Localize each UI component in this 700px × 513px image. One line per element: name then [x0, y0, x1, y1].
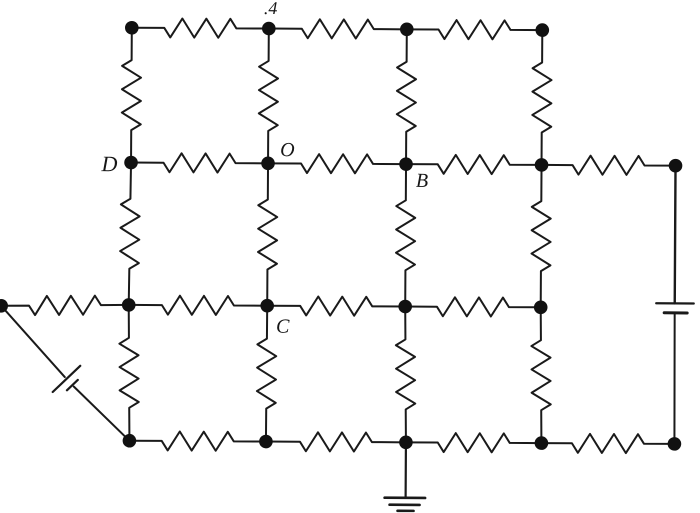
- resistor R7 (row2, col4 to right column): [541, 155, 675, 175]
- wire from left vertex node to battery V1: [1, 306, 65, 377]
- svg-text:O: O: [280, 139, 295, 161]
- resistor R25 (col4, row1 to row2): [532, 30, 552, 165]
- ground symbol line 2: [390, 503, 420, 506]
- node B junction: [399, 157, 413, 171]
- node junction row4-col1: [123, 434, 137, 448]
- resistor R10 (row3, C to col3): [267, 296, 405, 316]
- node junction row4-col3 (ground node): [399, 435, 413, 449]
- node junction row4-right (battery V2 bottom): [668, 437, 682, 451]
- ground symbol line 3: [398, 509, 414, 512]
- resistor R23 (col3, B to row3): [396, 164, 416, 307]
- node junction row2-col4: [535, 158, 549, 172]
- svg-text:.4: .4: [264, 0, 278, 18]
- resistor R1 (row1, top-left to node A): [132, 18, 269, 38]
- node D junction: [124, 156, 138, 170]
- wire from bottom col3 node down to ground: [405, 442, 408, 497]
- node junction row3-col3: [398, 300, 412, 314]
- battery V1 long plate (positive): [53, 366, 81, 392]
- node A junction: [262, 22, 276, 36]
- resistor R6 (row2, B to col4): [406, 155, 542, 175]
- resistor R3 (row1, col3 to col4): [407, 20, 543, 40]
- resistor R20 (col2, O to C): [258, 163, 278, 306]
- wire from battery V1 to bottom-left node: [73, 387, 129, 441]
- resistor R8 (row3, left vertex to col1): [1, 295, 129, 316]
- resistor R9 (row3, col1 to C): [129, 295, 268, 315]
- resistor R4 (row2, D to O): [131, 153, 268, 173]
- resistor R14 (row4, col3 to col4): [406, 433, 542, 453]
- wire from right row2 node down to battery V2: [674, 166, 677, 304]
- node junction row4-col4: [535, 436, 549, 450]
- node junction row3-col1: [122, 298, 136, 312]
- node junction row1-col3: [400, 22, 414, 36]
- resistor R24 (col3, row3 to row4): [395, 306, 415, 442]
- wire from battery V2 down to bottom-right node: [674, 313, 675, 444]
- node junction row2-right (battery V2 top): [669, 159, 683, 173]
- ground symbol line 1: [385, 496, 425, 499]
- svg-text:B: B: [416, 170, 428, 192]
- node junction row3-col4: [534, 300, 548, 314]
- resistor R15 (row4, col4 to right column): [541, 434, 674, 454]
- battery V1 short plate (negative): [67, 380, 78, 390]
- resistor R19 (col2, A to O): [259, 28, 279, 163]
- svg-text:D: D: [100, 151, 117, 176]
- battery V2 long plate (positive): [656, 302, 693, 305]
- resistor R27 (col4, row3 to row4): [531, 307, 551, 443]
- resistor R18 (col1, row3 to row4): [119, 305, 139, 441]
- resistor R21 (col2, C to row4): [257, 306, 277, 442]
- resistor R12 (row4, col1 to col2): [129, 431, 266, 451]
- svg-text:C: C: [276, 316, 290, 338]
- resistor R16 (col1, row1 to D): [122, 28, 142, 163]
- resistor R2 (row1, node A to col3): [269, 19, 407, 39]
- resistor R26 (col4, row2 to row3): [531, 165, 551, 308]
- battery V2 short plate (negative): [664, 311, 687, 314]
- node junction row1-col4: [535, 23, 549, 37]
- node junction left vertex: [0, 299, 8, 313]
- resistor R13 (row4, col2 to col3): [266, 432, 406, 452]
- resistor R11 (row3, col3 to col4): [405, 297, 541, 317]
- node C junction: [260, 299, 274, 313]
- resistor R5 (row2, O to B): [268, 154, 406, 174]
- resistor R17 (col1, D to row3): [120, 162, 140, 305]
- node junction row1-col1: [125, 21, 139, 35]
- node O junction: [261, 156, 275, 170]
- node junction row4-col2: [259, 435, 273, 449]
- resistor R22 (col3, row1 to B): [397, 29, 417, 164]
